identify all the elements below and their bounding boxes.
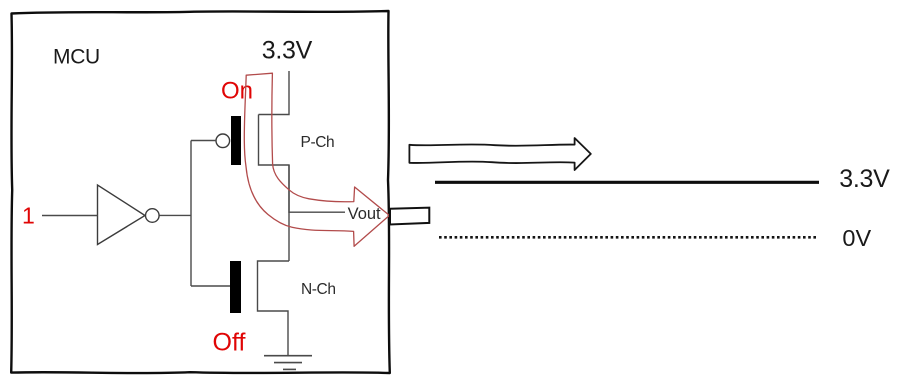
- svg-text:Off: Off: [213, 329, 246, 357]
- hollow signal-flow arrow: [409, 138, 590, 170]
- inverter U1 output bubble: [146, 209, 160, 223]
- ground: [264, 356, 312, 370]
- MCU box outline: [11, 11, 390, 373]
- transistor Q1 P-Ch gate bar: [231, 116, 241, 165]
- svg-text:3.3V: 3.3V: [262, 37, 313, 65]
- transistor Q1 P-Ch channel and leads: [259, 115, 290, 214]
- svg-text:0V: 0V: [842, 225, 871, 251]
- transistor Q2 N-Ch gate bar: [230, 261, 241, 313]
- inverter U1: [98, 185, 146, 245]
- svg-text:On: On: [221, 77, 253, 104]
- wire: input to inverter: [42, 215, 98, 217]
- wire: gate bus to N gate: [191, 285, 230, 287]
- node: drain junction vertical (P drain to N drain): [288, 165, 290, 261]
- svg-text:N-Ch: N-Ch: [301, 281, 336, 298]
- svg-text:MCU: MCU: [53, 45, 100, 68]
- svg-text:Vout: Vout: [348, 205, 381, 223]
- transistor Q2 N-Ch channel and leads: [258, 261, 290, 356]
- svg-text:1: 1: [22, 203, 35, 229]
- wire: gate bus vertical: [190, 141, 192, 287]
- wire: inverter output to gate bus: [160, 214, 192, 216]
- transistor Q1 P-Ch gate bubble: [216, 134, 230, 148]
- svg-text:P-Ch: P-Ch: [301, 134, 335, 151]
- svg-text:3.3V: 3.3V: [839, 165, 890, 193]
- wire: gate bus to P bubble: [191, 140, 216, 142]
- wire: Vout tap: [289, 211, 345, 213]
- logic-high level line: [435, 181, 819, 184]
- wire: 3.3V supply to P-ch source: [259, 71, 290, 115]
- red current-path arrow (hollow, bent): [244, 73, 389, 246]
- output pin rectangle: [390, 208, 429, 225]
- logic-low dotted line: [439, 236, 818, 239]
